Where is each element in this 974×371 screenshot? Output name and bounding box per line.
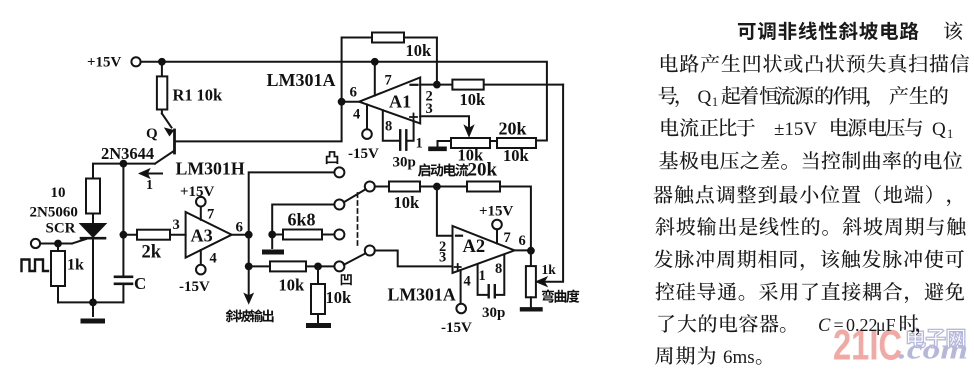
wire pole A to 10k (375, 186, 389, 188)
wire contact2 to 6k8 (272, 205, 334, 235)
svg-text:10k: 10k (394, 193, 421, 212)
op-amp A2 (453, 226, 515, 273)
label 10k (divider) (326, 288, 353, 307)
label 10k (pot left) (458, 146, 485, 165)
label +15V supply (87, 55, 122, 71)
pin 8 of A1 (383, 110, 400, 141)
op-amp A1 (359, 78, 420, 124)
node 6k8 left (268, 231, 276, 239)
label 凹 (341, 274, 352, 285)
capacitor 30p (A1) (400, 130, 406, 149)
resistor 2k (123, 230, 185, 240)
label 30p (A2) (482, 305, 505, 321)
svg-text:3: 3 (439, 250, 446, 266)
wire junction to A2 pin 2 (437, 187, 453, 236)
terminal -15V of A1 (362, 129, 372, 139)
resistor 10k feedback (A1) (372, 33, 404, 43)
svg-text:LM301A: LM301A (388, 285, 456, 305)
svg-text:3: 3 (426, 101, 433, 117)
minus of A2 (456, 235, 462, 237)
plus of A2 (455, 264, 461, 271)
watermark 电子网 (907, 328, 964, 348)
svg-text:-15V: -15V (441, 320, 472, 336)
label 2k (142, 243, 162, 263)
paragraph line 7 (656, 217, 966, 236)
resistor R1 10k (157, 62, 167, 114)
svg-text:1k: 1k (542, 262, 557, 277)
pin 6 of A1 (350, 85, 358, 101)
svg-text:10k: 10k (458, 146, 485, 165)
svg-text:2N3644: 2N3644 (101, 144, 154, 163)
switch pole B with lever (344, 246, 375, 265)
pin 3 of A3 (173, 217, 180, 233)
resistor 10 (SCR anode) (86, 179, 100, 225)
wire +15V rail (141, 62, 547, 141)
wire ground bus (58, 301, 123, 303)
svg-text:8: 8 (495, 261, 502, 277)
svg-text:LM301H: LM301H (176, 159, 245, 179)
label 10k feedback (406, 41, 433, 60)
resistor 10k (pole A) (389, 182, 467, 192)
label -15V of A1 (348, 146, 379, 162)
pin 1 of A1 (407, 121, 414, 141)
watermark .com (898, 334, 968, 366)
wire A1 pin 3 to pot wiper (420, 116, 473, 136)
label 启动电流 (418, 163, 469, 176)
pin 1 of A2 (478, 265, 488, 295)
svg-text:Q: Q (932, 119, 946, 140)
node C / 2k junction (120, 231, 128, 239)
svg-text:0.22: 0.22 (846, 315, 878, 335)
svg-text:4: 4 (353, 107, 360, 123)
label 10k (pole A) (394, 193, 421, 212)
SCR 2N5060 (thyristor) (72, 224, 105, 244)
paragraph line 10 (658, 314, 919, 336)
node ground bus / SCR junction (89, 299, 97, 307)
label 6k8 (288, 210, 316, 230)
label R1 10k (173, 86, 224, 105)
pin 4 of A2 (460, 270, 462, 304)
ground (A1 pot) (431, 147, 445, 152)
resistor 20k (startup current) (467, 182, 531, 251)
svg-text:LM301A: LM301A (267, 70, 336, 90)
svg-text:10k: 10k (503, 146, 530, 165)
label +15V of A3 (180, 184, 215, 200)
switch contact concave (334, 261, 344, 271)
resistor 10k (A1 pin2) (452, 80, 483, 90)
terminal -15V of A3 (196, 265, 206, 275)
resistor 1k (gate) (51, 244, 65, 303)
terminal -15V of A2 (456, 304, 466, 314)
label LM301H (176, 159, 245, 179)
svg-text:1k: 1k (67, 257, 84, 274)
pin 6 of A2 (519, 233, 526, 249)
terminal +15V of A3 (196, 197, 206, 207)
ground (main) (83, 302, 103, 321)
paragraph line 11 (655, 346, 761, 368)
wire Q collector to SCR branch (93, 164, 155, 179)
svg-text:+15V: +15V (87, 55, 122, 71)
svg-text:10k: 10k (279, 276, 306, 295)
label 1 (current) (146, 178, 153, 193)
label Q (146, 126, 158, 142)
capacitor 30p (A2) (489, 285, 495, 297)
svg-text:7: 7 (207, 207, 214, 223)
wire A3 output to convex contact (249, 172, 335, 234)
svg-text:6: 6 (519, 233, 526, 249)
wire feedback to pin 2 (436, 38, 438, 85)
ground (6k8) (265, 235, 282, 253)
node A2 inverting junction (433, 183, 441, 191)
node collector / C junction (120, 160, 128, 168)
svg-text:7: 7 (385, 73, 392, 89)
pin 8 of A2 (496, 255, 505, 295)
svg-text:1: 1 (416, 136, 423, 152)
paragraph title 可调非线性斜坡电路 (738, 21, 963, 40)
label A2 (463, 237, 486, 257)
svg-text:7: 7 (504, 230, 511, 246)
switch contact 3 (334, 230, 344, 240)
wiper arrow (curvature) (537, 85, 564, 286)
pin 2 of A2 (439, 239, 446, 255)
svg-text:4: 4 (210, 251, 217, 267)
label LM301A (A1) (267, 70, 336, 90)
wire trigger input to SCR gate (40, 243, 72, 245)
pin 3 of A1 (426, 101, 433, 117)
watermark 21IC (833, 322, 902, 370)
svg-text:10k: 10k (460, 90, 487, 109)
wire Q base to A1 output node (176, 102, 342, 142)
paragraph line 2 (661, 54, 969, 73)
label C (134, 274, 146, 293)
label LM301A (A2) (388, 285, 456, 305)
terminal +15V supply (131, 57, 140, 66)
switch contact convex (334, 167, 344, 177)
svg-text:10: 10 (51, 185, 66, 201)
potentiometer 1k (curvature) (526, 251, 536, 308)
label 20k (startup) (468, 160, 498, 181)
node A2 output (527, 247, 535, 255)
svg-text:6: 6 (350, 85, 358, 101)
svg-text:SCR: SCR (46, 221, 76, 237)
svg-text:1: 1 (712, 95, 718, 109)
svg-text:4: 4 (464, 274, 471, 290)
svg-text:1: 1 (146, 178, 153, 193)
label 2N3644 (101, 144, 154, 163)
terminal +15V of A2 (492, 220, 502, 230)
switch gang coupling (dashed) (357, 193, 359, 248)
node A1 output (338, 98, 346, 106)
svg-text:3: 3 (173, 217, 180, 233)
paragraph line 4 (662, 118, 954, 141)
svg-text:+15V: +15V (180, 184, 215, 200)
svg-text:2N5060: 2N5060 (30, 205, 78, 221)
plus of A1 (410, 114, 417, 121)
svg-text:10k: 10k (326, 288, 353, 307)
svg-text:20k: 20k (499, 119, 527, 139)
svg-text:30p: 30p (482, 305, 505, 321)
svg-text:A2: A2 (463, 237, 486, 257)
pin 7 of A3 (200, 207, 202, 220)
wire A1 pin 2 row (420, 84, 563, 86)
svg-text:6k8: 6k8 (288, 210, 316, 230)
svg-text:1: 1 (479, 268, 486, 284)
op-amp A3 (186, 212, 232, 258)
paragraph line 6 (654, 185, 951, 206)
label 10 (51, 185, 66, 201)
ground (curvature pot) (522, 307, 541, 311)
wire ramp output (arrow) (245, 235, 253, 303)
pin 6 of A3 (236, 220, 244, 236)
label A3 (191, 226, 213, 246)
svg-text:±15V: ±15V (774, 119, 817, 140)
label A1 (389, 92, 411, 112)
svg-text:6: 6 (236, 220, 244, 236)
svg-text:6ms: 6ms (723, 347, 755, 368)
current arrow I (140, 170, 162, 178)
wire A3 output (232, 234, 249, 236)
label -15V of A2 (441, 320, 472, 336)
node A3 output (245, 231, 253, 239)
svg-text:μF: μF (876, 315, 896, 335)
pin 3 of A2 (439, 250, 446, 266)
node rail / pin7 junction (371, 58, 379, 66)
node A1 pin2 junction (433, 81, 441, 89)
svg-text:-15V: -15V (179, 279, 210, 295)
svg-text:R1: R1 (173, 86, 193, 105)
paragraph line 3 (658, 86, 948, 109)
paragraph line 9 (656, 282, 965, 303)
node trigger / 1k junction (54, 240, 62, 248)
svg-text:A3: A3 (191, 226, 213, 246)
label 10k (concave path) (279, 276, 306, 295)
label +15V of A2 (479, 204, 514, 220)
resistor 10k to ground (divider) (311, 266, 325, 322)
potentiometer 20k (A1) (438, 138, 537, 148)
ground (divider) (309, 323, 329, 328)
node rail / R1 junction (158, 58, 166, 66)
svg-text:A1: A1 (389, 92, 411, 112)
label 10k (pot right) (503, 146, 530, 165)
paragraph line 5 (659, 151, 962, 170)
pin 7 of A1 (374, 62, 376, 96)
svg-text:1: 1 (947, 127, 953, 141)
svg-text:Q: Q (698, 87, 712, 108)
svg-text:30p: 30p (393, 155, 416, 171)
label -15V of A3 (179, 279, 210, 295)
wire A2 output (515, 249, 531, 251)
label 1k (gate) (67, 257, 84, 274)
label 弯曲度 (542, 289, 579, 302)
svg-text:-15V: -15V (348, 146, 379, 162)
minus of A1 (411, 84, 418, 86)
square-wave icon (22, 260, 49, 272)
svg-text:C: C (134, 274, 146, 293)
resistor 6k8 (272, 230, 334, 240)
label SCR (46, 221, 76, 237)
resistor 10k (concave path) (249, 261, 335, 271)
pin 4 of A1 (366, 105, 368, 130)
switch pole A with lever (344, 182, 375, 203)
label 1k (curvature) (542, 262, 557, 277)
label 30p (A1) (393, 155, 416, 171)
label 斜坡输出 (226, 309, 274, 322)
svg-text:=: = (834, 315, 844, 335)
svg-text:C: C (818, 316, 831, 336)
transistor Q 2N3644 (PNP) (155, 114, 175, 164)
wire A1 output to feedback (342, 38, 437, 102)
label 10k (A1 pin2) (460, 90, 487, 109)
svg-text:10k: 10k (197, 86, 224, 105)
label 20k (A1 pot) (499, 119, 527, 139)
wire SCR cathode to ground bus (92, 238, 94, 302)
pin 4 of A3 (200, 250, 202, 265)
switch contact 2 (334, 200, 344, 210)
svg-text:10k: 10k (406, 41, 433, 60)
node concave divider junction (314, 263, 322, 271)
svg-text:+15V: +15V (479, 204, 514, 220)
pin 2 of A1 (426, 89, 433, 105)
paragraph line 8 (654, 250, 964, 271)
svg-text:Q: Q (146, 126, 158, 142)
pin 7 of A2 (496, 229, 498, 243)
svg-text:8: 8 (385, 119, 392, 135)
wire A1 output (342, 101, 360, 103)
node ramp / 10k junction (245, 263, 253, 271)
wire pole B to A2 pin 3 (375, 251, 453, 267)
label 2N5060 (30, 205, 78, 221)
capacitor C (115, 164, 132, 303)
terminal trigger input (31, 239, 40, 248)
label 凸 (326, 151, 339, 164)
svg-text:2k: 2k (142, 243, 162, 263)
